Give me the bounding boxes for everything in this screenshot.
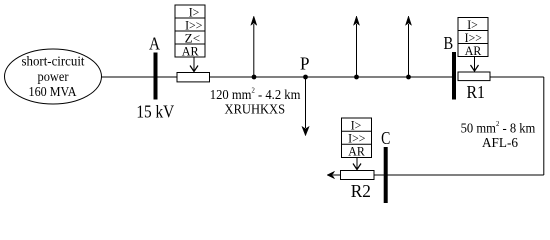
node P junction dot — [303, 75, 308, 80]
svg-text:P: P — [300, 54, 310, 74]
trip arrow from relay C to recloser R2 — [353, 158, 361, 170]
recloser R1 rectangle — [458, 72, 490, 81]
svg-text:A: A — [149, 33, 160, 53]
load feeder arrow 2 (up) — [354, 16, 360, 77]
wire stub left of R2 — [333, 174, 341, 176]
busbar B — [452, 52, 456, 100]
svg-text:C: C — [381, 128, 390, 148]
cable label 120 mm2 - 4.2 km XRUHKXS — [210, 86, 301, 118]
trip arrow from relay A to breaker — [190, 57, 198, 72]
breaker rectangle at A — [177, 73, 210, 82]
relay box at busbar C (I>, I>>, AR) — [342, 118, 372, 159]
relay box R at busbar A (I>, I>>, Z<, AR) — [175, 4, 205, 58]
wire right vertical drop — [543, 77, 545, 175]
svg-text:15 kV: 15 kV — [136, 102, 174, 122]
svg-text:R2: R2 — [351, 181, 371, 201]
svg-text:XRUHKXS: XRUHKXS — [225, 103, 286, 118]
junction node 3 — [406, 75, 411, 80]
relay box at busbar B (I>, I>>, AR) — [458, 17, 488, 58]
svg-text:short-circuit: short-circuit — [22, 54, 85, 69]
load feeder arrow 1 (up) — [251, 16, 257, 77]
wire from R1 to right edge — [490, 76, 544, 78]
svg-text:AR: AR — [465, 43, 482, 58]
wire bottom branch to R2 — [374, 174, 544, 176]
load feeder at P (down arrow) — [302, 77, 309, 136]
trip arrow from relay B to recloser R1 — [471, 57, 479, 72]
svg-text:AR: AR — [182, 43, 199, 58]
busbar C — [384, 147, 388, 203]
svg-text:B: B — [444, 33, 454, 53]
source ellipse (short-circuit power 160 MVA) — [5, 49, 102, 104]
load arrow left at R2 — [327, 171, 335, 178]
busbar A — [154, 53, 158, 100]
junction node 2 — [354, 75, 359, 80]
svg-text:50 mm2 - 8 km: 50 mm2 - 8 km — [461, 119, 536, 136]
junction node 1 — [252, 75, 257, 80]
svg-text:R1: R1 — [466, 82, 485, 102]
svg-text:power: power — [38, 70, 69, 85]
svg-text:160 MVA: 160 MVA — [29, 85, 78, 100]
load feeder arrow 3 (up) — [406, 16, 412, 77]
cable label 50 mm2 - 8 km AFL-6 — [461, 119, 536, 151]
svg-text:AR: AR — [348, 144, 365, 159]
svg-text:AFL-6: AFL-6 — [482, 136, 518, 151]
svg-text:120 mm2 - 4.2 km: 120 mm2 - 4.2 km — [210, 86, 301, 103]
wire main feeder A to B — [102, 76, 453, 78]
recloser R2 rectangle — [341, 171, 375, 180]
